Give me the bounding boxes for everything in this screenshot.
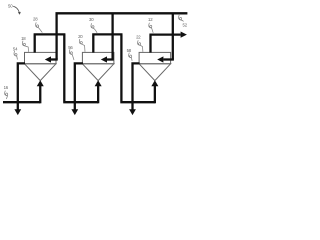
leader of label 16 (squiggle) bbox=[5, 91, 8, 99]
wire: underflow drop from bus 28 down to manifold under vessel 20 bbox=[63, 34, 98, 102]
leader of label 30 (squiggle) bbox=[91, 23, 97, 33]
leader of label 58 (squiggle) bbox=[129, 53, 132, 61]
arrow: upflow into vessel 20 funnel tip bbox=[97, 85, 99, 103]
vessel 20 funnel (inverted triangle) bbox=[82, 64, 114, 81]
wire: feed manifold 16 under vessel 18 bbox=[3, 101, 40, 103]
vessel 22 (separator: rectangle body) bbox=[139, 52, 171, 63]
wire: overhead riser of vessel 22 to product line 12 bbox=[149, 35, 180, 53]
leader of label 28 (squiggle) bbox=[36, 22, 43, 32]
vessel 20 (separator: rectangle body) bbox=[82, 52, 114, 63]
wire: inlet drop into vessel 20 from top header bbox=[111, 13, 113, 59]
leader of label 52 (squiggle from top line) bbox=[179, 15, 184, 22]
vessel 18 funnel (inverted triangle) bbox=[25, 64, 57, 81]
leader of label 22 (squiggle) bbox=[138, 40, 143, 52]
vessel 22 funnel (inverted triangle) bbox=[139, 64, 171, 81]
arrow: upflow into vessel 22 funnel tip bbox=[154, 85, 156, 103]
arrow: upflow into vessel 18 funnel tip bbox=[39, 85, 41, 103]
leader of label 54 (squiggle) bbox=[14, 51, 17, 60]
wire: bottoms line 54 from vessel 18 with down arrow bbox=[18, 63, 25, 110]
wire: inlet drop into vessel 22 from top header bbox=[172, 13, 174, 59]
wire: overhead bus 30 of vessel 20 bbox=[92, 34, 122, 52]
wire: overhead bus 28 of vessel 18 bbox=[34, 34, 66, 52]
arrow: curved leader of label 50 bbox=[13, 6, 19, 12]
arrow: inlet into vessel 18 bbox=[51, 58, 58, 60]
leader of label 18 (squiggle) bbox=[22, 41, 28, 52]
arrow: product line 12 out (right-pointing arrowhead) bbox=[181, 32, 187, 38]
leader of label 12 (squiggle) bbox=[149, 23, 153, 33]
leader of label 20 (squiggle) bbox=[79, 39, 85, 52]
wire: overhead line 52 (top header from riser 1 to right edge) bbox=[57, 13, 188, 59]
arrow: inlet into vessel 20 bbox=[107, 58, 114, 60]
leader of label 56 (squiggle) bbox=[69, 49, 74, 60]
wire: bottoms line 58 from vessel 22 with down arrow bbox=[133, 63, 140, 110]
wire: bottoms line 56 from vessel 20 with down arrow bbox=[75, 63, 83, 110]
vessel 18 (separator: rectangle body) bbox=[25, 52, 57, 63]
wire: underflow drop from bus 30 down to manifold under vessel 22 bbox=[120, 34, 155, 102]
arrow: inlet into vessel 22 bbox=[163, 58, 174, 60]
